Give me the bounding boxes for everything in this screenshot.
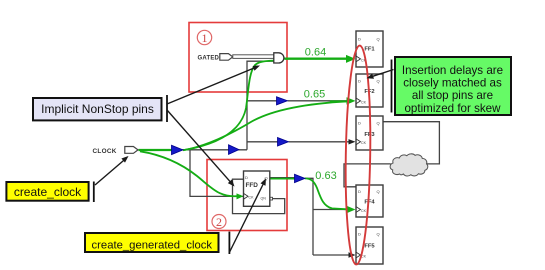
svg-text:create_generated_clock: create_generated_clock [92, 240, 213, 252]
green curve D: down to FFD clock [140, 151, 241, 196]
arrow create_generated_clock to FFD Q [230, 185, 263, 253]
green arrowhead into FF2 clock [347, 97, 356, 104]
marker circled 1 [197, 30, 211, 45]
green curve A: to gated clock gate [183, 61, 274, 151]
arrow NonStop label to gate input [167, 67, 257, 104]
red highlight box 1 [189, 23, 287, 93]
label: insertion delay note [395, 57, 511, 115]
svg-text:D: D [358, 79, 361, 84]
svg-text:GATED: GATED [198, 55, 220, 61]
svg-text:2: 2 [216, 215, 222, 229]
buffer B1 [172, 145, 184, 154]
svg-text:FF5: FF5 [364, 244, 375, 250]
svg-text:Q: Q [377, 189, 380, 194]
buffer B4 [278, 138, 289, 147]
wire FFD QN feedback loop [233, 179, 285, 213]
green arrowhead into FF4 clock [347, 206, 356, 213]
flip-flop FF2 [356, 74, 383, 107]
flip-flop FF1 [356, 31, 383, 67]
svg-text:D: D [358, 232, 361, 237]
arrow create_clock to CLOCK port [95, 158, 127, 185]
wire buffer B3 to FF2 clock [288, 100, 351, 102]
port CLOCK symbol [125, 147, 138, 154]
svg-text:FFD: FFD [246, 182, 259, 189]
leader stub for create_clock [93, 182, 95, 203]
wire riser branch to buffer B4 [247, 141, 278, 143]
svg-text:QN: QN [261, 197, 267, 201]
wire FF3 Q to cloud [383, 122, 439, 164]
svg-text:1: 1 [202, 31, 208, 45]
svg-text:CK: CK [249, 196, 255, 200]
port GATED symbol [220, 54, 233, 61]
svg-text:D: D [358, 37, 361, 42]
green path FFD Q out through buffer B5 [267, 178, 295, 180]
flip-flop FF4 [356, 185, 383, 217]
label: Implicit NonStop pins [33, 98, 162, 120]
flip-flop FFD (clock divider) [244, 171, 270, 206]
flip-flop FF5 [356, 227, 383, 264]
AND gate (clock gating) U1 [274, 53, 284, 63]
wire riser branch to buffer B3 [247, 100, 277, 102]
svg-text:D: D [358, 121, 361, 126]
svg-text:0.63: 0.63 [315, 170, 336, 182]
arrow note to FF2 / ellipse [370, 70, 394, 78]
label: create_clock [6, 182, 88, 201]
svg-text:0.64: 0.64 [305, 47, 326, 59]
cloud shape [390, 154, 428, 176]
svg-text:Q: Q [377, 232, 380, 237]
svg-text:closely matched as: closely matched as [403, 77, 502, 90]
green path 0.64: gate to FF1 clock [285, 58, 348, 60]
svg-text:Q: Q [377, 79, 380, 84]
flip-flop FF3 [356, 116, 383, 150]
svg-text:Insertion delays are: Insertion delays are [402, 64, 503, 77]
red ellipse around stop pins [344, 45, 372, 264]
svg-text:all stop pins are: all stop pins are [412, 89, 493, 102]
marker circled 2 [212, 215, 226, 230]
svg-text:FF1: FF1 [364, 47, 375, 53]
wire buffer B5 to FF4/FF5 riser [305, 178, 313, 255]
green path 0.63: buffer B5 to FF4 clock [305, 178, 347, 209]
leader stub for note [391, 60, 393, 113]
svg-text:0.65: 0.65 [304, 88, 325, 100]
leader stub for create_generated_clock [228, 232, 230, 254]
wire cloud to FF4 D [344, 164, 391, 187]
FFD QN pin nub [270, 197, 273, 200]
svg-text:CK: CK [361, 209, 367, 213]
green path 0.65: to FF2 clock [330, 100, 347, 102]
wire branch to FF5 clock [313, 254, 350, 256]
green arrowhead into FFD clock [237, 193, 244, 199]
wire FFD Q to buffer B5 [270, 177, 295, 179]
svg-text:FF4: FF4 [364, 200, 375, 206]
wire branch to FF4 clock [313, 209, 350, 211]
svg-text:Q: Q [377, 37, 380, 42]
black arrowhead into FF3 clock pin [349, 139, 356, 144]
arrow NonStop label to FFD clock pin [167, 110, 233, 184]
wire riser to gate lower input [247, 61, 274, 150]
buffer B2 [229, 145, 240, 155]
green clock path: CLOCK port to buffer B1 [139, 149, 173, 151]
buffer B5 [295, 174, 306, 182]
svg-text:D: D [245, 175, 248, 180]
svg-text:CK: CK [361, 100, 367, 104]
svg-text:create_clock: create_clock [14, 185, 82, 199]
svg-text:optimized for skew: optimized for skew [404, 102, 501, 115]
green curve B: to FF2 clock [183, 101, 348, 150]
outlined wire GATED to gate [233, 55, 274, 59]
leader stub for NonStop label [166, 95, 168, 122]
svg-text:CK: CK [361, 141, 367, 145]
wire buffer B4 to FF3 clock [289, 141, 351, 143]
buffer B3 [277, 97, 288, 105]
wire junction riser to FFD clock [190, 150, 244, 197]
svg-text:CLOCK: CLOCK [93, 148, 117, 155]
black arrowhead into FF5 clock pin [349, 252, 356, 257]
svg-text:D: D [358, 189, 361, 194]
red highlight box 2 [207, 160, 287, 231]
main clock net wire [139, 149, 248, 151]
label: create_generated_clock [85, 233, 219, 252]
svg-text:Q: Q [377, 121, 380, 126]
svg-text:Implicit NonStop pins: Implicit NonStop pins [41, 102, 154, 116]
green arrowhead into FF1 clock [346, 55, 356, 63]
